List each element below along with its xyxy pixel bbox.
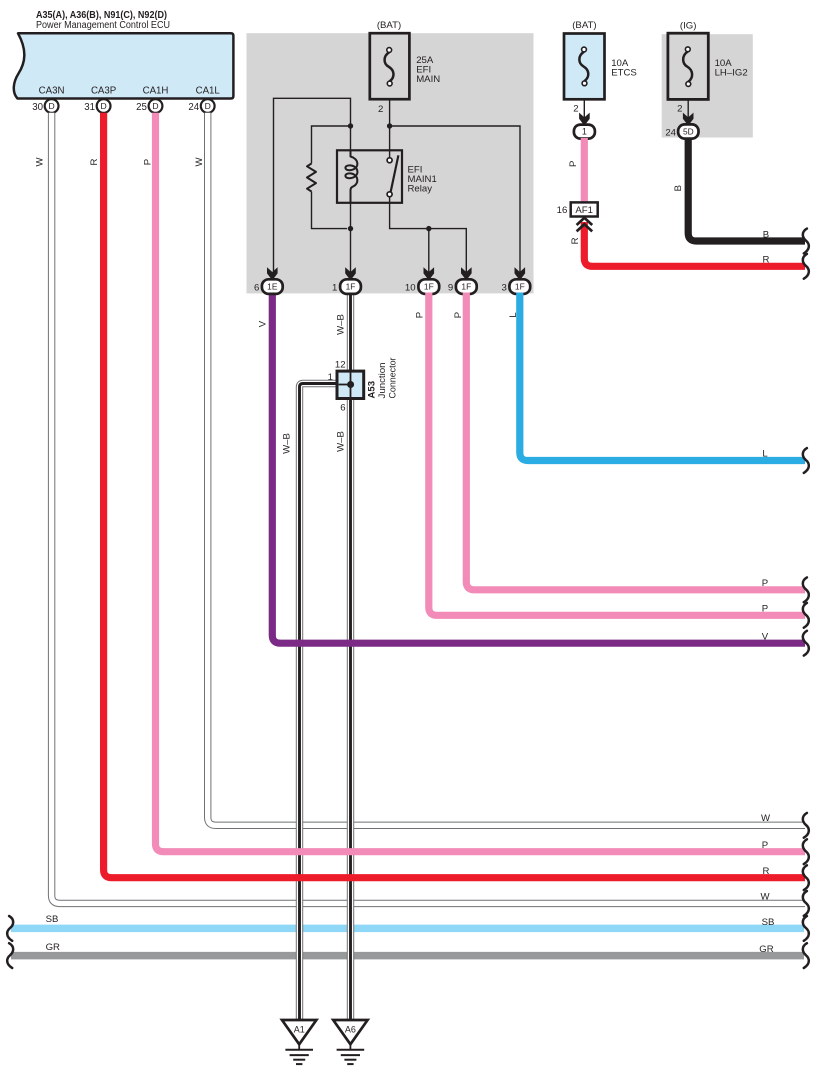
svg-text:1E: 1E: [267, 282, 278, 292]
svg-text:B: B: [763, 229, 769, 240]
continuation squiggle wire W upper: [803, 813, 809, 838]
wire: relay switch output to connectors 10 1F and 9 1F: [390, 197, 467, 272]
svg-text:D: D: [100, 101, 106, 111]
svg-text:AF1: AF1: [575, 205, 593, 216]
splice chevron below AF1: [577, 218, 593, 232]
svg-text:A6: A6: [345, 1025, 356, 1035]
svg-text:(BAT): (BAT): [572, 20, 596, 31]
connector AF1: [557, 202, 598, 216]
svg-text:V: V: [762, 631, 769, 642]
svg-text:W–B: W–B: [282, 433, 293, 454]
svg-text:W: W: [761, 813, 771, 824]
node: junction dot coil bottom: [348, 226, 353, 231]
svg-text:A53: A53: [367, 381, 378, 399]
wire P from connector 9 1F to right edge: [453, 293, 805, 590]
junction connector A53: [328, 357, 399, 414]
svg-text:6: 6: [340, 402, 345, 413]
continuation squiggle wire L: [803, 448, 809, 473]
continuation squiggle wire P (9 1F): [803, 577, 809, 602]
svg-text:Junction: Junction: [377, 363, 388, 399]
svg-text:Connector: Connector: [387, 357, 398, 399]
wire: relay coil bottom to connector 1 1F: [350, 203, 352, 272]
svg-text:Relay: Relay: [408, 184, 433, 195]
wire V from connector 1E to right edge: [258, 293, 806, 644]
wire W-B from A53 pin 1 to ground A1: [282, 384, 338, 1020]
wire B from connector 5D to right edge: [673, 138, 805, 241]
ground A6: [333, 1020, 367, 1064]
wire W from CA1L to right edge: [194, 113, 805, 826]
svg-text:D: D: [205, 101, 211, 111]
svg-text:R: R: [763, 255, 770, 266]
ECU pin CA1H 25 connector D: [136, 85, 168, 113]
ECU pin CA1L 24 connector D: [188, 85, 220, 113]
svg-text:12: 12: [335, 360, 346, 371]
svg-text:2: 2: [378, 104, 383, 115]
svg-text:24: 24: [188, 102, 199, 113]
svg-text:P: P: [568, 161, 579, 167]
svg-text:P: P: [453, 312, 464, 318]
wire R from CA3P to right edge: [89, 113, 805, 878]
svg-text:Power Management Control ECU: Power Management Control ECU: [36, 20, 170, 31]
wire P from connector 1 to splice AF1: [568, 138, 584, 202]
svg-text:CA1H: CA1H: [143, 85, 169, 96]
svg-text:1: 1: [328, 372, 333, 383]
wire R from AF1 to right edge: [570, 222, 805, 266]
svg-text:D: D: [48, 101, 54, 111]
svg-text:CA3P: CA3P: [91, 85, 116, 96]
wire W-B from relay 1F through A53 to ground A6: [336, 293, 351, 1020]
gray panel: EFI MAIN relay block: [247, 33, 534, 293]
svg-text:V: V: [258, 320, 269, 327]
svg-text:P: P: [415, 312, 426, 318]
svg-text:10: 10: [405, 282, 416, 293]
svg-text:P: P: [762, 604, 768, 615]
svg-text:ETCS: ETCS: [611, 67, 637, 78]
continuation squiggle wire P (CA1H): [803, 839, 809, 864]
fuse F3 10A LH-IG2: [668, 20, 748, 114]
gray panel: LH-IG2 fuse block: [662, 34, 753, 137]
svg-text:(IG): (IG): [680, 20, 697, 31]
node: junction dot at fuse output: [387, 123, 392, 128]
svg-text:24: 24: [665, 127, 676, 138]
wire W from CA3N to right edge: [35, 113, 805, 904]
fuse F1 25A EFI MAIN: [370, 20, 440, 115]
node: junction dot switch output: [426, 226, 431, 231]
connector 6 1E: [254, 267, 283, 294]
svg-text:P: P: [142, 159, 153, 165]
wire SB bus: [11, 914, 804, 928]
svg-text:L: L: [762, 449, 768, 460]
svg-text:LH–IG2: LH–IG2: [715, 68, 748, 79]
connector 10 1F: [405, 267, 439, 294]
svg-text:R: R: [763, 866, 770, 877]
ECU pin CA3N 30 connector D: [32, 85, 64, 113]
continuation squiggles wire GR: [7, 943, 809, 968]
svg-text:W: W: [760, 892, 770, 903]
svg-text:1F: 1F: [515, 282, 525, 292]
svg-text:30: 30: [32, 102, 43, 113]
connector 24 5D: [665, 113, 698, 139]
ECU title: [36, 10, 170, 31]
svg-text:L: L: [508, 312, 519, 318]
svg-text:1: 1: [332, 282, 337, 293]
svg-text:W–B: W–B: [336, 431, 347, 452]
svg-text:1F: 1F: [346, 282, 356, 292]
relay EFI MAIN1: [337, 150, 437, 203]
svg-text:W: W: [194, 157, 205, 167]
connector 1 (ETCS output): [574, 113, 595, 139]
svg-text:25: 25: [136, 102, 147, 113]
svg-text:1F: 1F: [461, 282, 471, 292]
svg-text:2: 2: [677, 103, 682, 114]
svg-text:1: 1: [582, 127, 587, 137]
svg-text:6: 6: [254, 282, 259, 293]
wire L from connector 3 1F to right edge: [508, 293, 805, 461]
continuation squiggles wire SB: [7, 916, 809, 941]
continuation squiggle wire W lower: [803, 891, 809, 916]
connector 3 1F: [501, 267, 530, 294]
wire: relay coil top to 1E branch: [274, 98, 351, 272]
svg-text:(BAT): (BAT): [377, 20, 401, 31]
svg-text:GR: GR: [46, 942, 60, 953]
svg-text:P: P: [762, 578, 768, 589]
continuation squiggle wire R upper: [803, 254, 809, 279]
wire: fuse ETCS pin 2 lead: [583, 99, 585, 118]
svg-text:R: R: [570, 237, 581, 244]
svg-text:B: B: [673, 185, 684, 191]
continuation squiggle wire P (10 1F): [803, 603, 809, 628]
svg-text:R: R: [89, 158, 100, 165]
svg-text:GR: GR: [759, 944, 773, 955]
fuse F2 10A ETCS: [564, 20, 637, 114]
svg-text:D: D: [152, 101, 158, 111]
connector 9 1F: [448, 267, 477, 294]
svg-text:31: 31: [84, 102, 95, 113]
svg-text:W–B: W–B: [336, 314, 347, 335]
svg-text:SB: SB: [46, 914, 59, 925]
svg-text:3: 3: [501, 282, 506, 293]
svg-text:A1: A1: [294, 1025, 305, 1035]
svg-text:5D: 5D: [683, 127, 694, 137]
node: junction dot coil top branch: [348, 123, 353, 128]
resistor (relay coil shunt): [307, 126, 351, 229]
svg-text:MAIN: MAIN: [416, 74, 440, 85]
svg-text:1F: 1F: [424, 282, 434, 292]
continuation squiggle wire R lower: [803, 865, 809, 890]
ECU pin CA3P 31 connector D: [84, 85, 116, 113]
wire: fuse LH-IG2 pin 2 lead: [687, 99, 689, 118]
connector 1 1F: [332, 267, 361, 294]
svg-text:P: P: [762, 840, 768, 851]
wire: branch from fuse output to connector 3 1F: [390, 126, 520, 272]
svg-text:SB: SB: [762, 917, 775, 928]
wire P from connector 10 1F to right edge: [415, 293, 805, 616]
continuation squiggle wire V: [803, 631, 809, 656]
svg-text:16: 16: [557, 205, 568, 216]
svg-text:9: 9: [448, 282, 453, 293]
svg-text:CA1L: CA1L: [196, 85, 221, 96]
wire: fuse EFI MAIN pin 2 down to relay switch: [389, 99, 391, 158]
continuation squiggle wire B: [803, 229, 809, 254]
wire GR bus: [11, 942, 804, 956]
ECU U1 Power Management Control ECU block: [14, 33, 234, 98]
svg-text:CA3N: CA3N: [39, 85, 65, 96]
svg-text:2: 2: [573, 103, 578, 114]
wire P from CA1H to right edge: [142, 113, 805, 852]
svg-text:A35(A), A36(B), N91(C), N92(D): A35(A), A36(B), N91(C), N92(D): [36, 10, 167, 21]
svg-text:W: W: [35, 157, 46, 167]
ground A1: [282, 1020, 316, 1064]
